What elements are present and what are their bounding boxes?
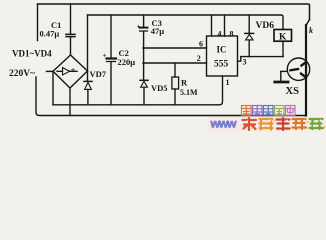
wire: C3 top lead xyxy=(143,15,145,27)
svg-text:+: + xyxy=(71,66,76,75)
diode VD5 xyxy=(140,79,148,81)
wire: relay bottom lead to pin3 line xyxy=(282,41,284,56)
svg-text:6: 6 xyxy=(199,40,203,49)
svg-text:VD6: VD6 xyxy=(256,21,275,31)
diode VD6 xyxy=(245,32,254,34)
wire: pin2 junction down to VD5 xyxy=(143,63,145,80)
svg-text:555: 555 xyxy=(214,60,229,70)
svg-text:k: k xyxy=(309,26,313,35)
op IC 555 box xyxy=(207,36,238,76)
watermark row 1: small colored site-name glyphs xyxy=(242,106,296,116)
ground bar xyxy=(275,81,288,84)
svg-text:3: 3 xyxy=(243,58,247,67)
svg-text:VD1~VD4: VD1~VD4 xyxy=(12,49,52,59)
svg-text:5.1M: 5.1M xyxy=(180,88,198,97)
wire: stub 220V to bridge left vertex xyxy=(47,70,54,72)
svg-text:www: www xyxy=(210,117,238,131)
svg-text:K: K xyxy=(279,33,287,43)
wire: VD6 bottom lead to pin3 line xyxy=(248,40,250,57)
wire: VD5 to DC- rail xyxy=(143,87,145,105)
wire: pin 8 from inner rail to IC top xyxy=(224,15,226,36)
wire: DC- bottom rail with corner up to pin 1 xyxy=(53,76,223,105)
wire: bridge left vertex down to DC- rail xyxy=(52,71,54,105)
wire: pin 2 line to IC xyxy=(143,62,207,64)
svg-text:IC: IC xyxy=(217,45,227,55)
zener diode VD7 xyxy=(84,80,92,82)
svg-text:1: 1 xyxy=(226,78,230,87)
wire: XS earth lead xyxy=(280,71,282,80)
svg-text:0.47μ: 0.47μ xyxy=(40,29,60,39)
capacitor C3 47u plates xyxy=(140,27,148,29)
svg-text:4: 4 xyxy=(218,30,222,39)
svg-text:2: 2 xyxy=(197,54,201,63)
svg-text:XS: XS xyxy=(286,86,300,97)
wire: junction pin6 to pin2 xyxy=(143,48,145,63)
relay K coil box xyxy=(274,30,292,42)
bridge rectifier VD1~VD4 diamond xyxy=(53,55,88,88)
wire: VD7 to DC- rail xyxy=(87,89,89,104)
wire: XS left terminal stub xyxy=(281,70,288,72)
wire: C2 top lead xyxy=(110,15,112,57)
watermark row 2: www + large colourful glyph jumble xyxy=(208,117,326,132)
wire: bridge right vertex down to VD7 xyxy=(87,71,89,81)
wire: C3 bottom lead to pin6 line xyxy=(143,32,145,48)
svg-text:+: + xyxy=(103,52,107,60)
capacitor C2 220u plates xyxy=(107,57,117,59)
wire: vertical from top wire to C1 xyxy=(70,4,72,34)
wire: inner DC+ rail with corner down to relay K xyxy=(88,15,284,30)
resistor R 5.1M body xyxy=(172,77,179,89)
bridge inner diode symbol xyxy=(57,70,77,72)
wire: DC+ vertical bridge right vertex up to inner rail xyxy=(87,15,89,71)
wire: pin 3 line to relay branch xyxy=(241,56,283,58)
wire: resistor R top lead from pin2 line xyxy=(174,63,176,77)
wire: pin 3 elbow from IC right edge xyxy=(238,57,241,62)
wire: switch lower lead down to neutral xyxy=(305,25,307,116)
wire: bridge bottom vertex down to neutral wire xyxy=(69,88,71,116)
wire: R bottom lead to DC- rail xyxy=(174,89,176,105)
wire: C1 to bridge top vertex xyxy=(70,38,72,56)
svg-text:220V~: 220V~ xyxy=(9,69,35,79)
svg-text:8: 8 xyxy=(230,30,234,39)
wire: pin 4 from inner rail to IC top xyxy=(211,15,213,36)
wire: C2 bottom lead to DC- rail xyxy=(110,62,112,105)
wire: pin 6 line to IC xyxy=(143,47,207,49)
svg-text:VD5: VD5 xyxy=(151,83,168,93)
socket XS slots xyxy=(291,69,299,70)
socket XS circle xyxy=(287,58,309,80)
capacitor C1 0.47u plates xyxy=(66,33,75,35)
svg-text:VD7: VD7 xyxy=(90,69,107,79)
wire: VD6 top lead from inner rail xyxy=(248,15,250,33)
svg-text:220μ: 220μ xyxy=(118,57,136,67)
svg-text:+: + xyxy=(137,24,141,30)
wire: left mains lead down from top xyxy=(37,4,39,41)
wire: 220V lower lead and bottom neutral wire xyxy=(36,77,306,116)
switch k blade xyxy=(306,20,310,26)
wire: mains top line L xyxy=(38,4,310,20)
svg-text:47μ: 47μ xyxy=(151,26,165,36)
svg-text:R: R xyxy=(181,78,188,88)
